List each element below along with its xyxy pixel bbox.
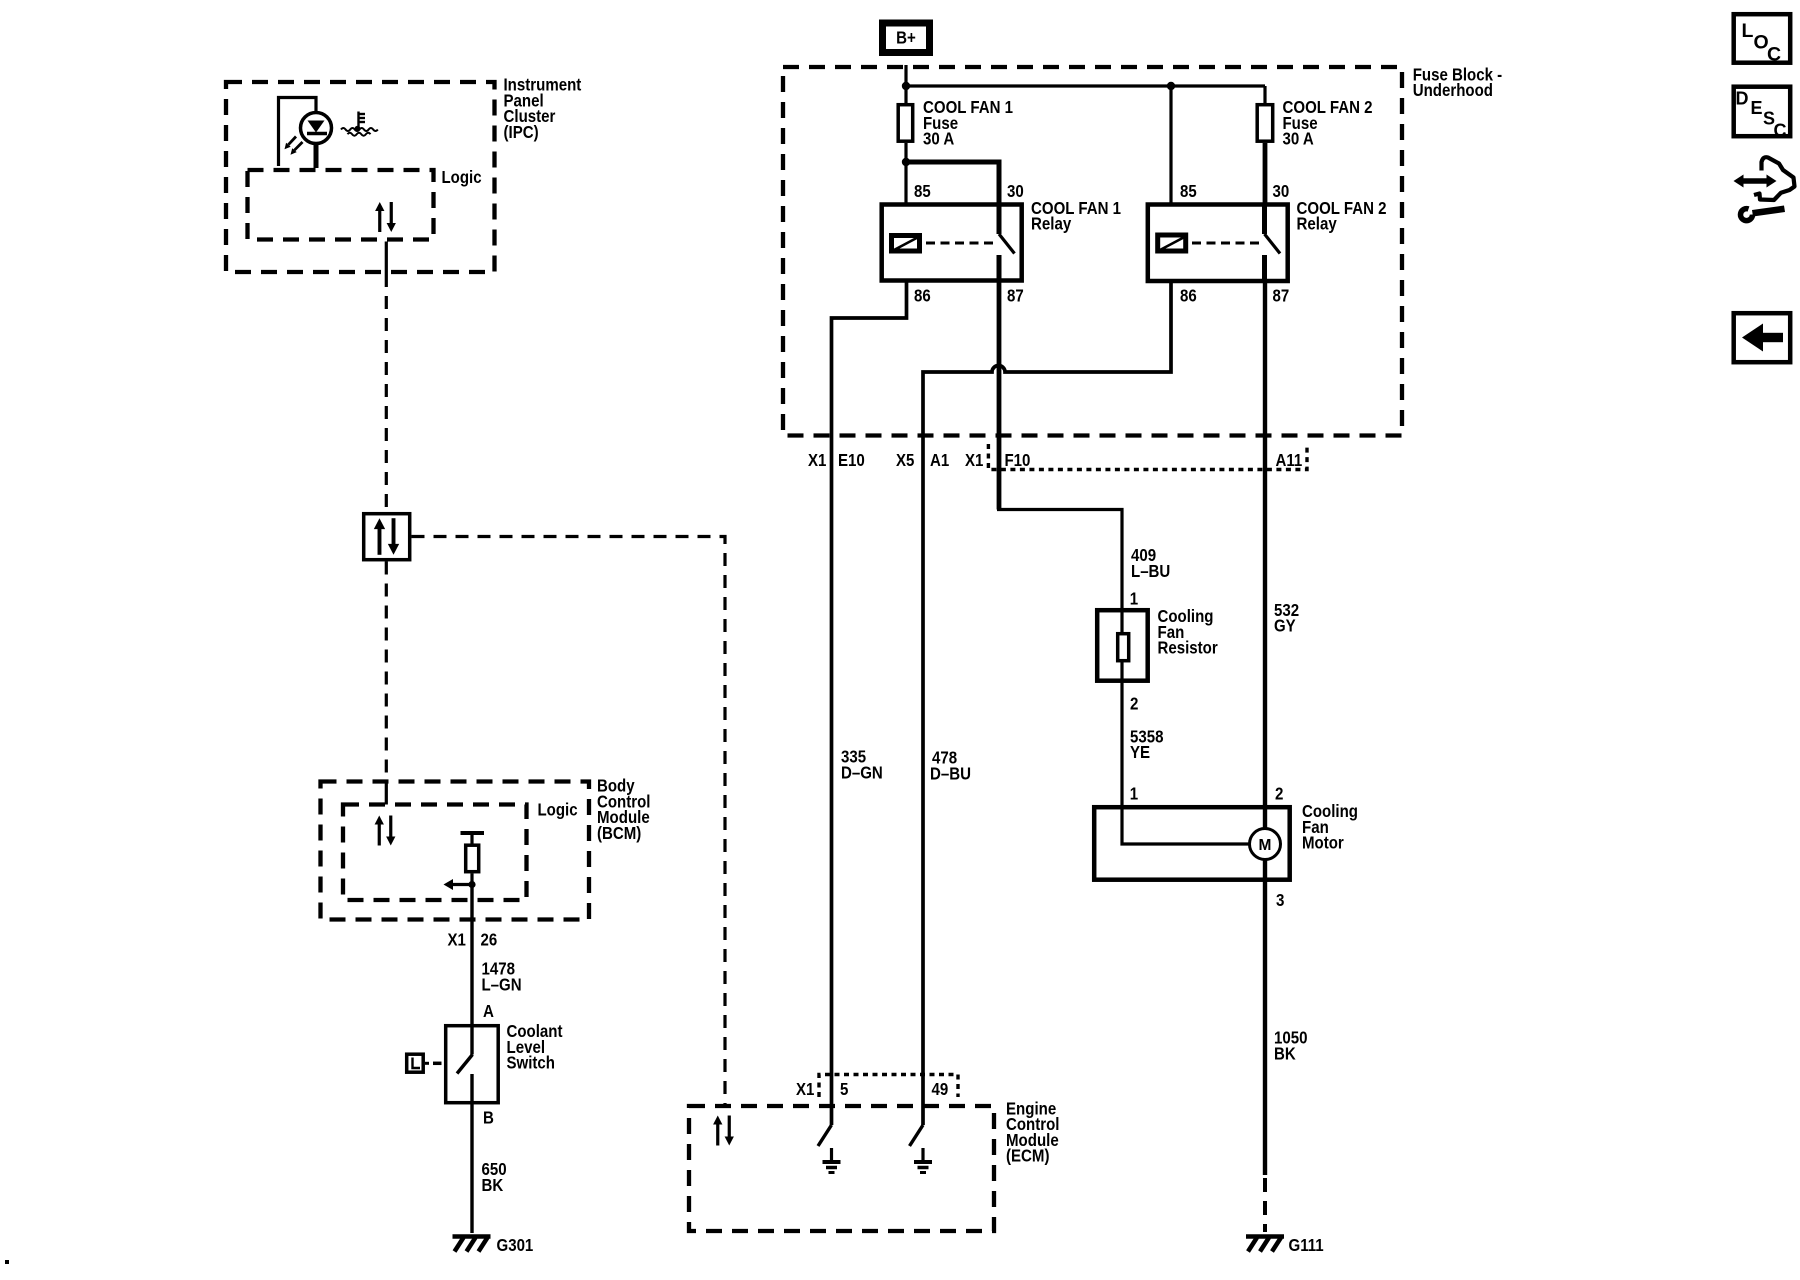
svg-text:X5: X5 — [896, 450, 915, 470]
svg-text:(IPC): (IPC) — [504, 122, 539, 142]
svg-text:87: 87 — [1273, 286, 1290, 306]
svg-text:BK: BK — [482, 1175, 504, 1195]
svg-text:1: 1 — [1130, 589, 1139, 609]
svg-text:2: 2 — [1275, 784, 1284, 804]
svg-text:Relay: Relay — [1297, 214, 1337, 234]
svg-text:1: 1 — [1130, 784, 1139, 804]
svg-text:85: 85 — [914, 181, 931, 201]
svg-text:X1: X1 — [808, 450, 827, 470]
svg-text:D: D — [1736, 89, 1749, 109]
svg-text:C: C — [1767, 44, 1781, 66]
svg-text:M: M — [1259, 837, 1272, 854]
svg-text:Resistor: Resistor — [1158, 638, 1218, 658]
svg-text:X1: X1 — [965, 450, 984, 470]
svg-text:87: 87 — [1007, 286, 1024, 306]
svg-text:2: 2 — [1130, 694, 1139, 714]
svg-text:GY: GY — [1274, 616, 1296, 636]
svg-text:B+: B+ — [896, 28, 916, 48]
svg-text:(ECM): (ECM) — [1006, 1146, 1050, 1166]
svg-text:Switch: Switch — [507, 1053, 556, 1073]
svg-text:5: 5 — [840, 1079, 849, 1099]
svg-text:C: C — [1774, 121, 1787, 141]
svg-text:Underhood: Underhood — [1413, 80, 1493, 100]
svg-text:D–GN: D–GN — [841, 762, 883, 782]
svg-text:30 A: 30 A — [923, 129, 955, 149]
svg-text:F10: F10 — [1005, 450, 1031, 470]
svg-text:Logic: Logic — [442, 167, 482, 187]
svg-text:L–GN: L–GN — [482, 975, 522, 995]
svg-text:YE: YE — [1130, 742, 1150, 762]
svg-text:L: L — [1742, 20, 1754, 42]
svg-text:Motor: Motor — [1302, 833, 1344, 853]
svg-text:D–BU: D–BU — [930, 764, 971, 784]
svg-text:30 A: 30 A — [1283, 129, 1315, 149]
svg-text:A11: A11 — [1276, 450, 1303, 470]
svg-text:X1: X1 — [448, 930, 467, 950]
svg-text:26: 26 — [481, 930, 498, 950]
svg-text:85: 85 — [1180, 181, 1197, 201]
svg-text:G301: G301 — [497, 1235, 534, 1255]
svg-text:G111: G111 — [1289, 1235, 1324, 1255]
svg-text:BK: BK — [1274, 1044, 1296, 1064]
svg-text:Relay: Relay — [1031, 214, 1071, 234]
svg-text:Logic: Logic — [538, 800, 578, 820]
svg-text:49: 49 — [932, 1079, 949, 1099]
svg-text:(BCM): (BCM) — [597, 823, 641, 843]
svg-text:86: 86 — [914, 286, 931, 306]
svg-text:3: 3 — [1276, 890, 1285, 910]
svg-text:E: E — [1751, 98, 1763, 118]
svg-text:86: 86 — [1180, 286, 1197, 306]
svg-text:B: B — [483, 1107, 494, 1127]
svg-text:A1: A1 — [930, 450, 949, 470]
svg-text:A: A — [483, 1001, 494, 1021]
svg-text:30: 30 — [1007, 181, 1024, 201]
svg-text:X1: X1 — [796, 1079, 815, 1099]
svg-text:30: 30 — [1273, 181, 1290, 201]
svg-text:E10: E10 — [838, 450, 865, 470]
svg-text:L–BU: L–BU — [1131, 561, 1170, 581]
